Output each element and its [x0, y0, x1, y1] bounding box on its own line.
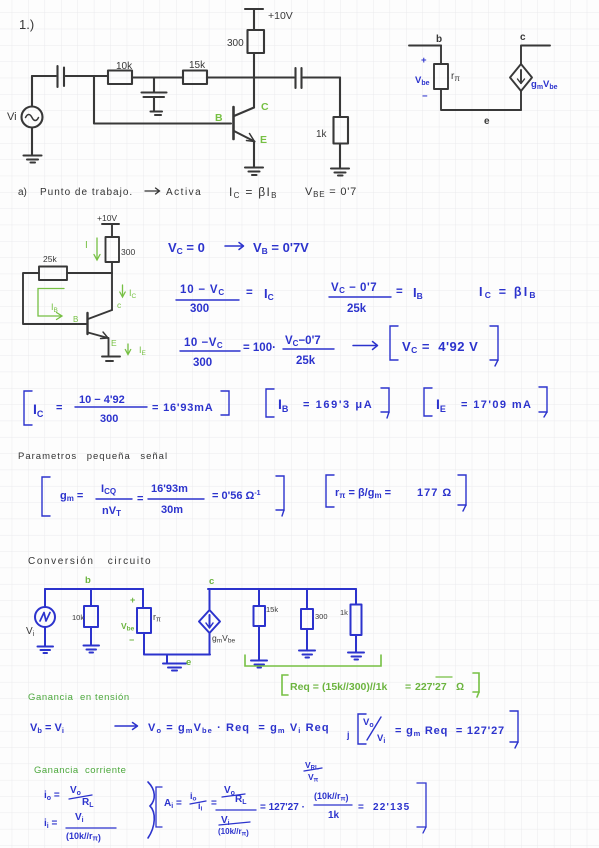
svg-text:177 Ω: 177 Ω: [417, 487, 452, 499]
svg-text:10 − 4'92: 10 − 4'92: [79, 394, 125, 406]
svg-text:Req =: Req =: [290, 681, 319, 693]
svg-text:(15k//300)//1k: (15k//300)//1k: [322, 681, 388, 693]
svg-text:io =: io =: [44, 790, 60, 802]
svg-text:Punto de trabajo.: Punto de trabajo.: [40, 187, 133, 198]
svg-text:10k: 10k: [72, 613, 84, 622]
svg-text:= 169'3 μA: = 169'3 μA: [303, 399, 373, 411]
svg-text:Vi: Vi: [7, 111, 17, 123]
svg-text:10k: 10k: [116, 61, 133, 72]
svg-text:30m: 30m: [161, 504, 183, 516]
svg-text:227'27: 227'27: [415, 681, 447, 693]
svg-text:E: E: [260, 134, 267, 146]
svg-text:+10V: +10V: [268, 10, 293, 22]
svg-text:= 127'27 ·: = 127'27 ·: [260, 802, 305, 813]
svg-text:+: +: [130, 595, 135, 605]
svg-text:1k: 1k: [328, 810, 340, 821]
svg-text:25k: 25k: [347, 303, 367, 315]
svg-text:= gm Req = 127'27: = gm Req = 127'27: [395, 725, 505, 738]
svg-text:300: 300: [190, 303, 209, 315]
svg-text:+: +: [421, 55, 427, 66]
svg-text:300: 300: [100, 413, 118, 425]
svg-text:=: =: [137, 493, 143, 505]
svg-text:c: c: [520, 32, 526, 43]
svg-text:−: −: [129, 635, 134, 645]
svg-text:Conversión circuito: Conversión circuito: [28, 556, 152, 567]
svg-text:25k: 25k: [296, 355, 316, 367]
svg-text:15k: 15k: [266, 605, 278, 614]
svg-text:Activa: Activa: [166, 187, 202, 198]
svg-text:= 16'93mA: = 16'93mA: [152, 402, 214, 414]
svg-text:Ganancia en tensión: Ganancia en tensión: [28, 692, 130, 703]
svg-text:e: e: [484, 116, 490, 127]
svg-text:300: 300: [121, 247, 135, 257]
svg-text:Ω: Ω: [456, 681, 464, 693]
svg-text:=: =: [211, 798, 217, 809]
svg-text:Vb = Vi: Vb = Vi: [30, 722, 64, 735]
svg-text:=: =: [405, 681, 411, 693]
svg-text:ii =: ii =: [44, 818, 58, 830]
svg-text:a): a): [18, 187, 27, 198]
svg-text:I: I: [85, 240, 88, 251]
svg-text:1k: 1k: [316, 129, 328, 140]
svg-text:= 22'135: = 22'135: [358, 802, 410, 813]
svg-text:=: =: [246, 287, 253, 299]
svg-text:c: c: [209, 576, 214, 587]
svg-text:300: 300: [315, 612, 328, 621]
svg-text:25k: 25k: [43, 254, 57, 264]
svg-text:300: 300: [193, 357, 212, 369]
svg-text:e: e: [186, 657, 191, 668]
svg-text:j: j: [346, 730, 350, 740]
svg-text:b: b: [85, 575, 91, 586]
svg-text:E: E: [111, 338, 117, 348]
svg-text:=: =: [56, 402, 62, 414]
svg-text:= 100·: = 100·: [243, 342, 276, 354]
svg-text:VC−0'7: VC−0'7: [285, 335, 321, 348]
svg-text:VC = 0: VC = 0: [168, 240, 205, 256]
svg-text:b: b: [436, 34, 442, 45]
svg-text:1.): 1.): [19, 17, 34, 32]
svg-text:1k: 1k: [340, 608, 348, 617]
svg-text:C: C: [261, 101, 269, 113]
svg-text:10 − VC: 10 − VC: [180, 284, 225, 297]
svg-text:B: B: [215, 112, 223, 124]
svg-text:300: 300: [227, 38, 244, 49]
svg-text:Ganancia corriente: Ganancia corriente: [34, 765, 126, 776]
svg-text:15k: 15k: [189, 60, 206, 71]
svg-text:VBE = 0'7: VBE = 0'7: [305, 186, 357, 199]
svg-text:B: B: [73, 315, 78, 324]
svg-text:−: −: [422, 91, 428, 102]
svg-text:Vo = gmVbe · Req = gm Vi Req: Vo = gmVbe · Req = gm Vi Req: [148, 722, 330, 735]
svg-text:Parametros pequeña señal: Parametros pequeña señal: [18, 451, 168, 462]
svg-text:+10V: +10V: [97, 213, 117, 223]
svg-text:= 0'56 Ω-1: = 0'56 Ω-1: [212, 490, 261, 502]
svg-text:VC − 0'7: VC − 0'7: [331, 282, 377, 295]
svg-text:Ai =: Ai =: [164, 798, 182, 810]
svg-text:16'93m: 16'93m: [151, 483, 188, 495]
svg-text:VB = 0'7V: VB = 0'7V: [253, 240, 309, 256]
svg-text:= 17'09 mA: = 17'09 mA: [461, 399, 532, 411]
svg-text:=: =: [396, 286, 403, 298]
